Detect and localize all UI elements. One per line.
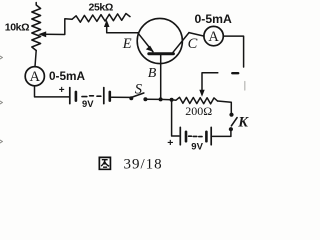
resistor R3 200Ω zigzag bbox=[172, 97, 218, 104]
broken wire dash segment right side bbox=[232, 72, 238, 74]
svg-text:9V: 9V bbox=[82, 98, 94, 109]
node battery-top junction dot bbox=[170, 98, 174, 102]
svg-text:39/18: 39/18 bbox=[124, 156, 163, 172]
switch K lever bbox=[231, 118, 237, 126]
wire battery B2 left up to junction bbox=[172, 100, 179, 136]
transistor base bar bbox=[149, 52, 174, 55]
wire 10k bottom to ammeter A1 bbox=[35, 51, 36, 67]
svg-text:0-5mA: 0-5mA bbox=[195, 12, 232, 26]
ammeter A1 circle bbox=[25, 67, 44, 86]
wire ammeter A2 to right vertical bbox=[223, 36, 243, 67]
svg-text:A: A bbox=[208, 29, 219, 45]
battery B1 9V plates bbox=[69, 88, 71, 104]
wire battery B1 to switch S bbox=[112, 96, 130, 98]
svg-text:200Ω: 200Ω bbox=[185, 104, 212, 118]
switch S lever bbox=[133, 93, 144, 97]
svg-text:C: C bbox=[188, 36, 198, 52]
ammeter A2 circle bbox=[204, 26, 223, 45]
scan speck left edge 1 bbox=[0, 56, 3, 59]
svg-text:0-5mA: 0-5mA bbox=[49, 69, 86, 83]
200Ω wiper arrow down bbox=[202, 73, 218, 93]
scan speck left edge 3 bbox=[0, 140, 3, 143]
wire 25k wiper down and right to emitter E bbox=[107, 24, 138, 33]
wire 200Ω right end to switch K upper contact bbox=[218, 101, 232, 113]
svg-text:E: E bbox=[122, 36, 132, 52]
svg-text:B: B bbox=[148, 66, 157, 81]
switch S contact dot left bbox=[129, 96, 133, 100]
resistor R2 25kΩ zigzag bbox=[72, 14, 130, 23]
switch S contact dot right bbox=[143, 97, 147, 101]
transistor Q1 circle bbox=[137, 18, 182, 63]
svg-text:K: K bbox=[237, 115, 249, 131]
node base junction dot bbox=[159, 97, 163, 101]
battery B2 9V plates bbox=[210, 127, 212, 144]
svg-text:10kΩ: 10kΩ bbox=[5, 22, 29, 34]
svg-text:25kΩ: 25kΩ bbox=[89, 1, 113, 13]
25k wiper arrowhead bbox=[104, 20, 110, 27]
svg-text:+: + bbox=[167, 137, 173, 149]
svg-text:9V: 9V bbox=[191, 142, 203, 153]
10k wiper arrowhead bbox=[38, 31, 46, 37]
wire S to base junction bbox=[145, 98, 160, 100]
wire ammeter A1 down to battery B1 bbox=[35, 86, 69, 97]
svg-text:+: + bbox=[59, 85, 65, 96]
switch K upper contact dot bbox=[229, 113, 233, 117]
wire base down to bottom rail bbox=[160, 55, 162, 99]
caption character 图 drawn as strokes bbox=[99, 157, 110, 169]
wire collector to ammeter A2 bbox=[189, 33, 204, 37]
wire base junction to battery junction bbox=[161, 98, 172, 100]
scan speck left edge 2 bbox=[0, 101, 3, 104]
wire 10k wiper to 25k left end bbox=[44, 19, 72, 35]
transistor collector lead bbox=[173, 33, 189, 53]
faint wire fragment right side bbox=[244, 82, 246, 91]
svg-text:A: A bbox=[30, 69, 41, 85]
svg-text:S: S bbox=[135, 82, 143, 98]
switch K lower contact dot bbox=[229, 127, 233, 131]
transistor emitter lead with arrow bbox=[138, 33, 153, 52]
wire K lower contact to battery B2 right bbox=[213, 131, 231, 137]
resistor R1 10kΩ potentiometer zigzag bbox=[32, 3, 41, 51]
